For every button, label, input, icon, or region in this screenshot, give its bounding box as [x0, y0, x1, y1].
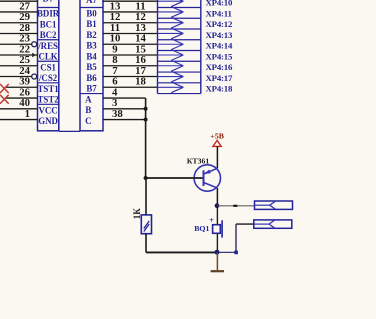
svg-text:B0: B0	[86, 8, 97, 18]
svg-text:XP4:15: XP4:15	[206, 51, 233, 61]
svg-text:XP4:17: XP4:17	[206, 73, 233, 83]
svg-text:BDIR: BDIR	[37, 9, 60, 19]
svg-text:XP4:18: XP4:18	[206, 84, 233, 94]
svg-text:BQ1: BQ1	[194, 224, 209, 233]
svg-text:XP4:10: XP4:10	[206, 0, 233, 8]
svg-text:/CS2: /CS2	[38, 73, 58, 83]
svg-text:+5B: +5B	[210, 132, 224, 141]
svg-text:B7: B7	[86, 84, 97, 94]
svg-text:B5: B5	[86, 62, 97, 72]
svg-text:1: 1	[25, 108, 30, 120]
svg-text:CS1: CS1	[40, 62, 56, 72]
svg-text:XP4:12: XP4:12	[206, 19, 233, 29]
svg-text:XP4:16: XP4:16	[206, 62, 233, 72]
svg-text:B1: B1	[86, 19, 96, 29]
svg-text:A: A	[85, 94, 92, 104]
svg-text:BC1: BC1	[40, 19, 57, 29]
svg-text:B: B	[85, 105, 91, 115]
svg-text:TST1: TST1	[37, 84, 58, 94]
svg-text:A7: A7	[86, 0, 97, 5]
svg-text:GND: GND	[38, 116, 58, 126]
svg-text:B2: B2	[86, 30, 97, 40]
svg-text:XP4:14: XP4:14	[206, 41, 233, 51]
svg-text:XP4:11: XP4:11	[206, 8, 232, 18]
svg-text:VCC: VCC	[38, 105, 57, 115]
svg-text:B4: B4	[86, 51, 97, 61]
svg-text:D7: D7	[43, 0, 54, 4]
svg-text:XP4:13: XP4:13	[206, 30, 233, 40]
svg-text:BC2: BC2	[40, 30, 57, 40]
svg-text:1К: 1К	[132, 208, 142, 220]
svg-text:18: 18	[135, 76, 146, 88]
svg-text:B6: B6	[86, 73, 97, 83]
svg-text:TST2: TST2	[37, 95, 59, 105]
svg-text:CLK: CLK	[38, 52, 57, 62]
svg-text:КТ361: КТ361	[187, 156, 210, 165]
svg-text:+: +	[209, 215, 214, 225]
svg-text:C: C	[85, 116, 91, 126]
svg-text:/RES: /RES	[37, 41, 58, 51]
svg-text:38: 38	[112, 108, 123, 120]
svg-text:B3: B3	[86, 41, 97, 51]
